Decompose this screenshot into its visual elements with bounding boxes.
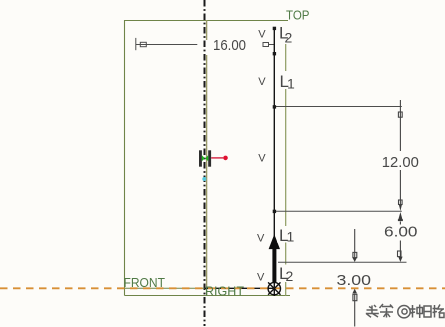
svg-text:3.00: 3.00 (337, 272, 372, 289)
svg-text:1: 1 (287, 229, 295, 245)
svg-text:12.00: 12.00 (382, 154, 419, 171)
svg-text:6.00: 6.00 (384, 224, 418, 241)
svg-text:V: V (258, 153, 266, 165)
svg-text:2: 2 (285, 30, 293, 46)
svg-text:TOP: TOP (286, 8, 310, 23)
svg-text:V: V (257, 272, 265, 284)
svg-text:1: 1 (287, 76, 295, 92)
svg-text:RIGHT: RIGHT (205, 284, 244, 299)
svg-text:V: V (257, 233, 265, 245)
svg-text:V: V (258, 76, 266, 88)
svg-text:FRONT: FRONT (124, 275, 166, 290)
svg-text:V: V (258, 29, 266, 41)
svg-text:16.00: 16.00 (213, 37, 246, 54)
svg-text:2: 2 (286, 268, 294, 284)
